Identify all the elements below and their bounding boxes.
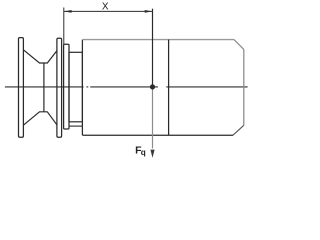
- groove upper profile: [23, 50, 57, 63]
- boss: [69, 52, 82, 122]
- body top-right chamfer: [234, 40, 244, 50]
- force line lower: [152, 87, 154, 148]
- body bottom-right chamfer: [233, 125, 244, 135]
- body top edge: [82, 39, 234, 41]
- body left edge: [81, 40, 83, 136]
- boss lower step line: [69, 125, 82, 127]
- roller right flange: [57, 38, 62, 137]
- force line upper: [152, 9, 154, 87]
- groove bottom edge: [43, 63, 45, 112]
- load point dot: [150, 84, 155, 89]
- dimension line X: [64, 10, 153, 12]
- centerline right dash: [166, 86, 247, 88]
- centerline dot segment: [86, 86, 88, 88]
- svg-text:X: X: [102, 2, 109, 13]
- centerline: [5, 86, 84, 88]
- body right edge: [243, 49, 245, 125]
- dimension arrow right: [145, 10, 153, 13]
- washer: [64, 44, 69, 129]
- groove lower profile: [23, 112, 57, 125]
- roller left flange: [19, 38, 24, 138]
- svg-text:q: q: [141, 148, 146, 157]
- centerline mid dash: [90, 86, 158, 88]
- dimension arrow left: [64, 10, 72, 13]
- body inner divider: [168, 40, 170, 136]
- dimension extension line left: [63, 8, 65, 45]
- force arrowhead: [150, 150, 154, 158]
- body bottom edge: [82, 134, 233, 136]
